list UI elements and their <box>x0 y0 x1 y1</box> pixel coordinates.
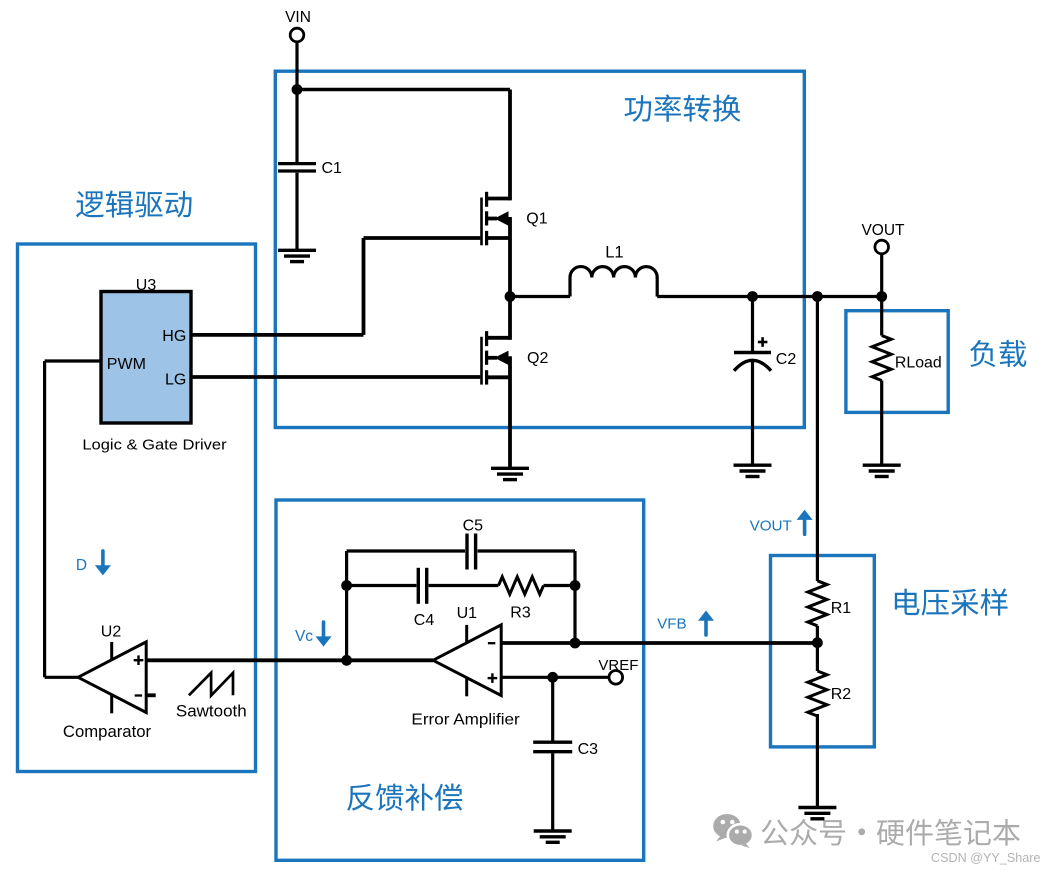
svg-text:D: D <box>76 557 87 574</box>
capacitor C4 <box>418 568 426 604</box>
svg-text:PWM: PWM <box>107 356 146 373</box>
wire C5 branch <box>347 549 575 552</box>
wire VOUT sense down to R1 <box>816 297 819 582</box>
wire C2 branch <box>751 297 754 466</box>
svg-text:R2: R2 <box>831 686 852 703</box>
wire Q1 source to switch node <box>508 217 512 297</box>
box 功率转换 power stage <box>275 71 804 427</box>
svg-text:VFB: VFB <box>657 616 687 633</box>
ground C3 <box>534 831 572 842</box>
inductor L1 <box>570 267 657 297</box>
watermark middle dot <box>858 828 865 835</box>
capacitor C5 <box>467 534 476 570</box>
svg-text:C3: C3 <box>578 741 599 758</box>
U3 logic & gate driver block <box>101 292 191 424</box>
svg-text:U2: U2 <box>101 623 122 640</box>
box 电压采样 voltage sampling <box>771 556 875 747</box>
node C4/R3 right junction <box>570 580 581 591</box>
svg-text:Error Amplifier: Error Amplifier <box>411 711 520 728</box>
transistor Q2 <box>482 331 511 385</box>
wire compensation left riser <box>345 551 348 660</box>
title 电压采样 <box>895 588 1008 615</box>
resistor RLoad <box>872 336 891 381</box>
node switch junction <box>505 291 516 302</box>
arrow VFB up <box>698 611 714 636</box>
wire RLoad branch <box>880 297 883 466</box>
arrow D down <box>95 551 111 576</box>
op-amp U2 comparator <box>78 642 146 713</box>
svg-text:LG: LG <box>165 371 186 388</box>
box 反馈补偿 feedback compensation <box>276 500 644 860</box>
title 功率转换 <box>625 94 741 121</box>
resistor R3 <box>499 577 544 594</box>
arrow Vc down <box>316 622 332 647</box>
svg-text:C4: C4 <box>414 612 435 629</box>
resistor R1 <box>808 581 827 626</box>
wire VIN terminal to rail <box>295 42 298 90</box>
sawtooth waveform symbol <box>189 673 233 696</box>
U1 non-inverting input marker <box>488 673 498 683</box>
wire Vc: U1 output to U2 + input <box>146 658 433 662</box>
svg-text:Vc: Vc <box>295 628 313 645</box>
wire C1 to ground <box>295 173 298 250</box>
C2 polarity + marker <box>758 337 768 347</box>
wire R2 to ground <box>816 714 819 807</box>
U1 inverting input marker <box>488 642 495 644</box>
svg-text:C5: C5 <box>463 518 484 535</box>
node C4 left junction <box>341 580 352 591</box>
wire VFB / U1 inverting input <box>501 641 817 645</box>
terminal VIN <box>290 28 304 42</box>
capacitor C2 (polarized) <box>734 353 771 371</box>
svg-text:Sawtooth: Sawtooth <box>176 702 247 720</box>
svg-text:VIN: VIN <box>285 9 311 26</box>
wire compensation right riser <box>573 551 576 643</box>
svg-text:C2: C2 <box>776 351 797 368</box>
node inverting input junction <box>570 638 581 649</box>
node VFB divider junction <box>812 637 823 648</box>
wire switch node to Q2 drain <box>508 297 512 340</box>
wire Q2 source to ground <box>508 356 512 468</box>
ground Q2 source <box>491 468 529 479</box>
svg-text:VREF: VREF <box>598 657 638 674</box>
svg-text:R1: R1 <box>831 600 852 617</box>
node Vc junction <box>341 655 352 666</box>
svg-text:CSDN @YY_Share: CSDN @YY_Share <box>931 850 1041 865</box>
ground R2 <box>798 808 836 819</box>
svg-text:U1: U1 <box>457 605 478 622</box>
U2 non-inverting input marker <box>134 655 144 665</box>
wire VIN rail to Q1 drain <box>297 88 510 91</box>
wire VOUT terminal drop <box>880 254 883 297</box>
ground C2 <box>734 465 772 476</box>
svg-text:Q2: Q2 <box>527 350 548 367</box>
title 逻辑驱动 <box>76 190 192 217</box>
node C2 junction <box>747 291 758 302</box>
svg-text:VOUT: VOUT <box>861 222 905 239</box>
capacitor C3 <box>533 742 572 752</box>
node VIN rail junction <box>292 84 303 95</box>
transistor Q1 <box>482 192 511 246</box>
svg-text:R3: R3 <box>510 604 531 621</box>
svg-text:U3: U3 <box>136 277 157 294</box>
watermark wechat icon <box>713 814 753 848</box>
watermark text 公众号 <box>761 819 845 846</box>
svg-text:RLoad: RLoad <box>895 354 942 371</box>
svg-text:Logic & Gate Driver: Logic & Gate Driver <box>82 436 226 453</box>
op-amp U1 error amplifier <box>433 625 501 696</box>
watermark text 硬件笔记本 <box>877 819 1020 846</box>
arrow VOUT up <box>797 510 813 535</box>
svg-text:Comparator: Comparator <box>63 723 152 741</box>
svg-text:L1: L1 <box>605 244 623 262</box>
wire C3 branch <box>551 677 554 830</box>
wire Q1 drain vertical <box>508 90 512 201</box>
svg-text:VOUT: VOUT <box>750 517 792 534</box>
box 负载 load <box>846 311 948 413</box>
node VREF/C3 junction <box>547 672 558 683</box>
box 逻辑驱动 logic drive <box>18 244 256 772</box>
capacitor C1 <box>278 164 316 171</box>
wire C4 R3 branch <box>347 584 575 587</box>
ground C1 <box>278 250 316 261</box>
wire U1 non-inverting input to VREF <box>501 676 609 679</box>
terminal VOUT <box>875 240 889 254</box>
svg-text:Q1: Q1 <box>526 211 547 228</box>
title 反馈补偿 <box>347 784 462 811</box>
wire to C1 top <box>295 90 298 163</box>
node VOUT junction <box>876 291 887 302</box>
wire L1 to VOUT node <box>657 295 882 298</box>
wire U2 output to PWM input <box>45 361 101 677</box>
svg-text:HG: HG <box>162 328 186 345</box>
terminal VREF <box>609 671 623 685</box>
wire R1 to R2 <box>816 626 819 671</box>
svg-text:C1: C1 <box>322 160 343 177</box>
resistor R2 <box>808 671 827 716</box>
wire HG to Q1 gate <box>191 238 481 335</box>
U2 inverting input marker <box>135 694 142 696</box>
wire U2 - input stub <box>146 693 156 697</box>
ground RLoad <box>863 465 901 476</box>
wire LG to Q2 gate <box>191 375 481 379</box>
title 负载 <box>970 340 1026 367</box>
node VOUT sense junction <box>812 291 823 302</box>
wire switch node to L1 <box>510 295 570 298</box>
